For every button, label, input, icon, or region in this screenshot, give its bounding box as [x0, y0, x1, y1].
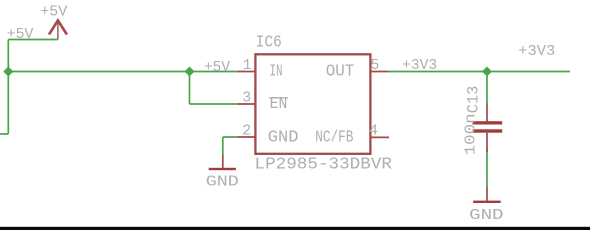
- svg-text:+3V3: +3V3: [518, 44, 555, 60]
- wire GND pin drop: [222, 137, 224, 155]
- svg-text:+5V: +5V: [7, 27, 34, 43]
- wire +3V3 out: [388, 71, 571, 73]
- ground symbol (C13): [473, 187, 501, 203]
- svg-text:3: 3: [242, 90, 251, 107]
- ground lead (IC pin 2): [222, 155, 224, 168]
- svg-text:LP2985-33DBVR: LP2985-33DBVR: [255, 155, 393, 174]
- pin 3 EN stub: [238, 103, 256, 105]
- wire +5V vertical left: [7, 40, 9, 135]
- capacitor C13: [473, 104, 503, 153]
- svg-text:EN: EN: [270, 94, 288, 113]
- pin 1 IN stub: [238, 71, 256, 73]
- svg-text:1: 1: [243, 57, 252, 74]
- pin 5 OUT stub: [370, 71, 388, 73]
- svg-text:+3V3: +3V3: [402, 58, 437, 74]
- supply +5V arrow symbol: [49, 20, 67, 39]
- ground bar (IC pin 2): [209, 168, 236, 170]
- wire +5V bus to IN pin: [8, 71, 239, 73]
- svg-text:NC/FB: NC/FB: [315, 128, 353, 147]
- svg-text:+5V: +5V: [40, 4, 67, 20]
- svg-text:OUT: OUT: [326, 61, 355, 80]
- bottom window border bar: [0, 227, 590, 230]
- svg-text:GND: GND: [469, 208, 503, 224]
- svg-text:4: 4: [369, 123, 378, 140]
- svg-text:+5V: +5V: [204, 60, 230, 76]
- ground lead (C13): [486, 187, 488, 201]
- wire cap bottom to gnd: [486, 149, 488, 187]
- svg-text:IC6: IC6: [256, 32, 282, 51]
- svg-text:GND: GND: [268, 128, 299, 147]
- pin 2 GND stub: [238, 136, 256, 138]
- pin 4 NC/FB stub: [370, 136, 389, 138]
- svg-text:100n: 100n: [463, 113, 480, 155]
- svg-text:C13: C13: [465, 86, 483, 114]
- node junction +5V left: [4, 67, 13, 76]
- wire cap top: [486, 72, 488, 105]
- C13 plate bottom: [473, 129, 503, 132]
- wire to +5V arrow: [8, 39, 58, 41]
- wire EN drop: [189, 72, 191, 105]
- node junction EN tap: [185, 67, 194, 76]
- svg-text:IN: IN: [270, 61, 283, 80]
- svg-text:GND: GND: [206, 174, 239, 190]
- svg-text:5: 5: [370, 57, 379, 74]
- wire GND pin horizontal: [223, 136, 239, 138]
- C13 bottom lead: [486, 133, 488, 153]
- regulator IC6 body (LP2985-33DBVR): [255, 54, 370, 154]
- svg-text:2: 2: [242, 122, 251, 139]
- ground symbol (IC pin 2): [209, 155, 236, 170]
- wire to EN pin: [190, 103, 240, 105]
- node junction +3V3/C13: [483, 67, 492, 76]
- ground bar (C13): [473, 201, 501, 203]
- C13 plate top: [473, 121, 503, 124]
- C13 top lead: [486, 104, 488, 122]
- EN overbar: [269, 97, 288, 99]
- wire left-edge stub: [0, 133, 8, 135]
